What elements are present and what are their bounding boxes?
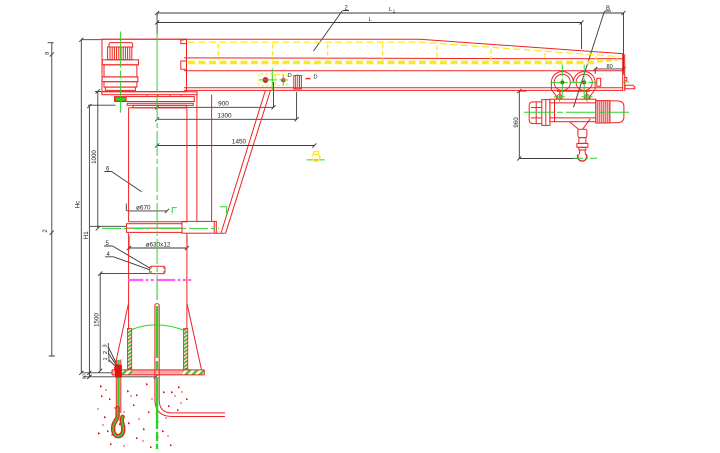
- anchor bolt nut blob: [115, 365, 122, 378]
- leader 6 (column item): [105, 167, 142, 192]
- wheel 1 vertical centerline: [561, 65, 563, 99]
- bearing plate 2 tick marks: [147, 95, 181, 97]
- slewing bearing plate 1: [102, 92, 197, 95]
- beam top dashed row: [188, 42, 619, 56]
- column axis centerline: [156, 95, 158, 302]
- section D-D cut profile: [294, 76, 302, 89]
- column axis below ground: [156, 283, 158, 301]
- hoist left cap: [529, 102, 542, 124]
- ground rod green core: [156, 306, 158, 449]
- dimension ø670: [126, 204, 169, 214]
- hook: [577, 150, 587, 161]
- svg-text:Hc: Hc: [75, 201, 82, 209]
- wheel axis centerline: [551, 81, 597, 83]
- beam lower dashed band: [188, 61, 596, 64]
- leader B (hoist item): [574, 6, 612, 107]
- svg-text:2: 2: [103, 351, 109, 354]
- base plate: [112, 370, 204, 375]
- slewing motor lower body: [104, 82, 137, 87]
- leader 3 (anchor item): [103, 343, 119, 368]
- view mark right: [220, 207, 227, 215]
- trolley bolt cross left: [557, 95, 562, 100]
- skirt flare left: [114, 303, 128, 369]
- beam end stop tab: [625, 85, 635, 88]
- slewing motor fins: [108, 47, 132, 60]
- slewing bearing plate 3: [127, 103, 193, 105]
- flange axis centerline: [102, 227, 219, 229]
- hook symbol centerline: [307, 159, 325, 161]
- hoist drum body: [550, 99, 596, 122]
- dimension 80 top right: [593, 64, 626, 75]
- section dot 1 crosshair: [260, 69, 278, 92]
- svg-text:H1: H1: [83, 231, 90, 239]
- slewing bearing plate 4: [133, 105, 186, 108]
- dimension 8 (base plate): [81, 371, 158, 379]
- svg-text:1: 1: [103, 357, 109, 360]
- dimension L1 top: [155, 7, 626, 69]
- svg-text:ø630x12: ø630x12: [146, 241, 171, 248]
- leader 2 (jib item): [314, 6, 350, 52]
- anchor bolt shank: [116, 360, 121, 414]
- slewing bearing plate 2: [115, 97, 195, 102]
- beam bottom flange: [184, 88, 623, 91]
- beam end buffer: [625, 77, 627, 81]
- leader 1 (anchor item): [103, 356, 118, 369]
- svg-text:80: 80: [82, 374, 87, 380]
- flange joint left bar: [127, 224, 183, 233]
- trolley side tab: [597, 78, 601, 86]
- section D-D right bolt dot: [281, 78, 285, 82]
- junction box: [150, 266, 165, 273]
- motor axis centerline: [119, 32, 121, 113]
- beam web line upper: [184, 57, 623, 60]
- dimension a (leftmost vertical): [43, 43, 55, 356]
- conduit pipe: [155, 304, 225, 417]
- dimension 1500: [94, 272, 150, 373]
- section D-D leader dash: [306, 78, 311, 80]
- anchor bolt eye loop: [113, 408, 123, 436]
- leader 2b (anchor item): [103, 350, 119, 369]
- svg-text:1300: 1300: [217, 112, 232, 119]
- trolley wheel 2: [576, 74, 592, 90]
- diagonal brace: [221, 91, 270, 233]
- column lower shell: [129, 233, 187, 369]
- view mark left: [172, 208, 177, 214]
- svg-text:3: 3: [103, 344, 109, 347]
- svg-text:80: 80: [607, 64, 613, 70]
- dimension ø630x12: [127, 236, 189, 250]
- section D-D left bolt dot: [263, 77, 269, 83]
- slewing motor body: [104, 65, 137, 77]
- hoist top bracket: [557, 91, 590, 99]
- dimension 900: [155, 82, 276, 112]
- svg-text:900: 900: [218, 100, 229, 107]
- hook pulley block: [577, 129, 588, 150]
- dimension 1450: [155, 139, 317, 148]
- beam top flange: [102, 39, 624, 54]
- svg-text:1450: 1450: [232, 139, 247, 146]
- slewing motor cap: [109, 43, 133, 47]
- hoist motor fins: [596, 101, 610, 123]
- hoist motor end cap: [610, 101, 624, 123]
- column upper shell: [129, 108, 187, 222]
- section dot 2 crosshair: [280, 75, 289, 86]
- hoist axis centerline: [524, 111, 629, 113]
- LAYER: green centerlines: [102, 32, 629, 450]
- trolley bolt cross right lines: [582, 92, 593, 102]
- slewing motor band 2: [102, 77, 138, 82]
- beam cell dashed verticals: [218, 44, 596, 60]
- dimension H1: [83, 104, 116, 379]
- LAYER: yellow: [188, 42, 619, 161]
- trolley wheel 1: [554, 74, 570, 90]
- dimension Hc: [75, 38, 102, 375]
- section D-D dashed box left: [259, 74, 276, 86]
- beam end cap: [623, 54, 625, 91]
- svg-text:1000: 1000: [91, 150, 98, 164]
- svg-text:1500: 1500: [94, 313, 101, 327]
- hook reach symbol: [312, 152, 319, 162]
- leader 4 (junction box item): [105, 252, 150, 270]
- svg-text:D: D: [314, 75, 318, 81]
- LAYER: black dimensions: [43, 6, 626, 380]
- flange bracket block: [182, 221, 226, 233]
- junction box corner dots: [151, 267, 165, 273]
- section profile centerline: [297, 74, 299, 92]
- foundation surface arc: [132, 325, 186, 331]
- LAYER: red structure: [97, 39, 635, 448]
- svg-text:D: D: [288, 73, 292, 79]
- trolley bolt cross right: [585, 95, 590, 100]
- hoist left flange band: [542, 100, 550, 126]
- dimension L: [155, 17, 584, 49]
- hook bottom centerline: [573, 157, 597, 159]
- leader 5 (junction box item): [104, 241, 150, 268]
- svg-text:960: 960: [513, 117, 520, 128]
- beam web line lower: [184, 70, 623, 72]
- end stop cross: [623, 81, 630, 83]
- trolley bolt cross left lines: [554, 92, 565, 102]
- dimension 1300: [155, 92, 299, 121]
- hoist rope falls: [570, 119, 591, 130]
- anchor sleeve left: [127, 329, 131, 369]
- slewing motor base: [105, 87, 135, 90]
- dimension 960 hoist height: [513, 89, 579, 161]
- brace vertical member: [197, 95, 212, 222]
- beam left cap upper: [181, 39, 187, 43]
- slewing motor flange band: [102, 60, 138, 65]
- skirt flare right: [187, 303, 202, 369]
- wheel 2 vertical centerline: [583, 65, 585, 99]
- anchor sleeve right: [184, 329, 188, 369]
- ground level line: [128, 279, 192, 281]
- head housing box: [102, 39, 187, 91]
- trolley frame: [551, 71, 595, 99]
- beam left cap lower: [181, 61, 187, 69]
- svg-text:ø670: ø670: [136, 205, 151, 212]
- concrete speckles: [97, 383, 188, 448]
- dimension 1000: [90, 89, 127, 230]
- section D-D dashed box right: [275, 74, 287, 85]
- column axis centerline upper: [156, 34, 158, 93]
- bearing green block: [116, 97, 127, 101]
